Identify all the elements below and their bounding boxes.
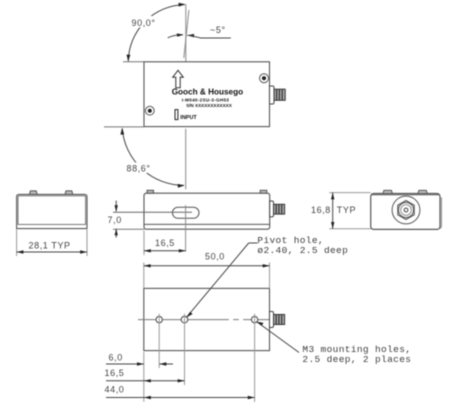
right view body <box>371 194 440 230</box>
left edge extension below <box>143 352 145 402</box>
up arrow symbol <box>173 70 184 88</box>
front centerline through aperture <box>185 205 187 251</box>
sma face pin <box>404 208 408 212</box>
sma connector top view flange <box>270 86 275 104</box>
hole 3 extension line <box>254 314 256 402</box>
svg-text:44,0: 44,0 <box>105 385 125 395</box>
datum centerline vertical middle <box>185 129 187 190</box>
dimension text 88,6 <box>125 163 155 174</box>
hole centerline dashed <box>138 319 229 321</box>
svg-text:TYP: TYP <box>337 205 356 215</box>
arrowhead 90 arc left <box>127 55 131 62</box>
dimension text 90,0 <box>130 16 159 28</box>
side view tab left <box>29 191 37 195</box>
44,0 dimension <box>106 397 255 399</box>
sma face barrel circle <box>399 203 414 218</box>
sma connector front view flange <box>270 201 274 217</box>
hole 1 extension line <box>158 314 160 368</box>
16,8 dimension line <box>332 193 334 229</box>
bottom reference extension <box>113 228 144 230</box>
aperture oval <box>172 207 199 218</box>
svg-text:90,0°: 90,0° <box>132 18 156 28</box>
50,0 extension lines <box>143 263 145 289</box>
front view body <box>144 193 270 229</box>
~5 right arrowhead <box>187 34 194 38</box>
~5 right leader <box>187 35 231 38</box>
16,5 dimension bottom <box>106 380 185 382</box>
50,0 dimension line <box>144 265 270 267</box>
16,5 front extension line <box>143 231 145 256</box>
svg-text:ø2.40, 2.5 deep: ø2.40, 2.5 deep <box>257 245 348 256</box>
pivot hole extension line <box>184 314 186 385</box>
mounting hole 1 <box>156 316 162 322</box>
m3 leader <box>257 322 299 353</box>
sma connector top view barrel <box>274 89 285 100</box>
sma face hex nut <box>398 201 414 220</box>
7,0 dim arrow bottom <box>115 229 117 238</box>
svg-text:2.5 deep, 2 places: 2.5 deep, 2 places <box>302 354 411 365</box>
28,1 dimension line <box>17 251 87 253</box>
input aperture bar <box>175 110 178 120</box>
side view inner wall <box>18 196 86 225</box>
pivot hole leader <box>187 243 249 317</box>
svg-text:16,8: 16,8 <box>311 205 331 215</box>
front view tab left <box>147 190 154 193</box>
16,8 extension lines <box>329 192 370 194</box>
sma connector bottom view flange <box>270 312 274 328</box>
right view tab right <box>418 190 427 193</box>
side view extension lines <box>16 230 18 256</box>
arrowhead 90 arc top <box>179 3 186 7</box>
svg-text:INPUT: INPUT <box>180 115 197 121</box>
svg-text:I-M040-2SU-3-GH53: I-M040-2SU-3-GH53 <box>182 97 230 102</box>
svg-text:88,6°: 88,6° <box>127 164 151 174</box>
right view outer shell line <box>439 198 442 230</box>
datum centerline vertical top <box>185 4 187 62</box>
svg-text:16,5: 16,5 <box>105 368 125 378</box>
sma connector front view barrel <box>274 204 285 214</box>
svg-text:Gooch & Housego: Gooch & Housego <box>172 88 243 97</box>
svg-text:S/N XXXXXXXXXXXX: S/N XXXXXXXXXXXX <box>186 103 233 108</box>
svg-text:7,0: 7,0 <box>108 215 122 225</box>
pivot hole <box>181 316 188 323</box>
svg-text:~5°: ~5° <box>210 25 226 35</box>
svg-text:6,0: 6,0 <box>109 353 123 363</box>
beam line <box>113 211 192 213</box>
side view outer body <box>17 194 87 228</box>
tilted beam line ~5deg <box>184 10 189 58</box>
sma connector bottom view barrel <box>274 315 285 325</box>
mounting hole 2 <box>251 316 257 322</box>
16,5 front dimension line <box>144 250 186 252</box>
side view tab right <box>65 191 73 195</box>
sma face outer circle <box>392 196 420 224</box>
svg-text:50,0: 50,0 <box>205 252 225 262</box>
front view tab right <box>260 190 267 193</box>
right view top seam <box>371 194 440 196</box>
right view tab left <box>383 190 393 193</box>
bottom edge extension line (left of top view) <box>104 126 144 128</box>
svg-text:28,1 TYP: 28,1 TYP <box>29 241 71 251</box>
top view body <box>144 62 270 127</box>
top edge extension line <box>123 61 144 63</box>
bottom view body <box>144 288 270 350</box>
7,0 dim arrow top <box>115 201 117 212</box>
svg-text:16,5: 16,5 <box>155 238 175 248</box>
front view seam line <box>144 223 270 225</box>
~5 left leader <box>168 35 183 38</box>
6,0 dimension <box>106 363 144 365</box>
88.6 degree arc <box>122 128 184 185</box>
arrowhead 88.6 bottom right <box>178 184 185 188</box>
screw left <box>145 106 154 115</box>
arrowhead 88.6 top left <box>120 128 124 135</box>
90 degree arc <box>128 5 185 62</box>
screw top right <box>260 74 269 83</box>
~5 left arrowhead <box>177 33 184 36</box>
